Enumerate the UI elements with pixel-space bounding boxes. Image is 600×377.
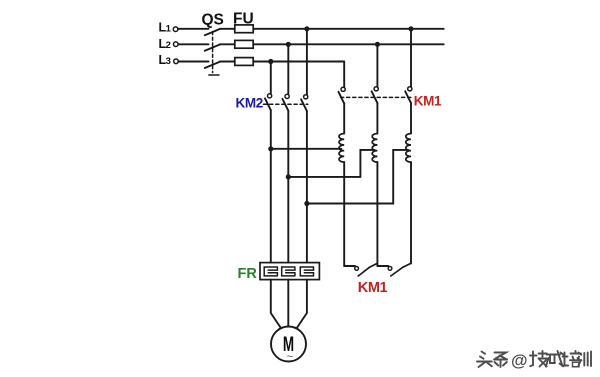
FR heater element 2 xyxy=(282,267,295,276)
QS blade pole 3 xyxy=(205,62,220,68)
wire: drop L1 to KM1 contact 3 xyxy=(410,29,412,87)
char xun xyxy=(578,352,592,367)
QS mechanical link (dashed) xyxy=(212,32,214,73)
wire: coil 1 bottom down xyxy=(343,162,345,266)
svg-text:KM1: KM1 xyxy=(414,93,442,108)
wire: FR to motor phase 2 xyxy=(287,280,289,326)
svg-text:@: @ xyxy=(511,351,528,370)
terminal L1 xyxy=(159,21,178,35)
wire L1 bus xyxy=(178,28,444,30)
wire: drop L1 to KM2 contact 3 xyxy=(306,29,308,95)
wire L2 bus xyxy=(178,43,443,45)
wire: coil 3 bottom down xyxy=(410,162,412,263)
switch QS xyxy=(202,12,224,76)
contactor KM1 (bottom) star contact A xyxy=(344,263,377,276)
contactor KM1 contact 2 xyxy=(372,87,379,103)
wire: L3 corner down to KM1 contact 1 xyxy=(343,62,345,88)
wire: coil 3 tap to KM2 line 3 xyxy=(307,150,408,204)
svg-text:KM2: KM2 xyxy=(236,96,263,111)
inductor coil 3 (starting reactor phase 3) xyxy=(406,134,411,163)
wire: FR to motor phase 1 xyxy=(271,280,282,330)
svg-text:QS: QS xyxy=(202,12,224,29)
wire: FR to motor phase 3 xyxy=(295,280,307,330)
node: L2 tap to KM2 pole 2 xyxy=(286,42,291,47)
thermal overload relay FR box xyxy=(260,263,319,280)
wire: KM1 contact 1 to coil 1 xyxy=(343,104,345,134)
FR heater element 3 xyxy=(300,267,313,276)
fuse FU pole 1 xyxy=(235,25,253,33)
char ji xyxy=(530,351,547,367)
fuse group FU xyxy=(233,11,254,66)
node: tap of coil 1 xyxy=(268,146,273,151)
contactor KM1 contact 3 xyxy=(405,87,412,103)
wire: KM1 contact 3 to coil 3 xyxy=(410,103,412,133)
fuse FU pole 3 xyxy=(235,58,253,66)
wire: coil 2 tap to KM2 line 2 xyxy=(288,150,374,177)
fuse FU pole 2 xyxy=(235,40,253,48)
node: tap of coil 3 xyxy=(304,201,309,206)
svg-text:1: 1 xyxy=(166,24,172,35)
QS blade pole 1 xyxy=(205,29,220,35)
KM2 mechanical link (dashed) xyxy=(264,103,308,105)
wire: KM2 contact 3 down to FR xyxy=(306,111,308,263)
wire: KM2 contact 1 down to FR xyxy=(270,110,272,262)
contactor KM2 contact 1 xyxy=(265,94,272,110)
KM1 mechanical link (dashed) xyxy=(341,96,414,98)
svg-text:FR: FR xyxy=(238,266,258,282)
inductor coil 2 (starting reactor phase 2) xyxy=(372,134,377,163)
svg-text:2: 2 xyxy=(166,40,171,51)
inductor coil 1 (starting reactor phase 1) xyxy=(339,134,344,163)
svg-text:3: 3 xyxy=(166,56,171,67)
motor M xyxy=(271,327,306,364)
char tou xyxy=(477,352,492,368)
QS link end bar xyxy=(209,74,219,76)
wire: drop L3 to KM2 contact 1 xyxy=(270,62,272,94)
watermark 头条 @技成培训 xyxy=(477,351,591,370)
node: L3 tap to KM2 pole 1 xyxy=(268,59,273,64)
terminal L2 xyxy=(159,37,179,51)
node: tap of coil 2 xyxy=(286,174,291,179)
contactor KM2 contact 2 xyxy=(283,94,290,110)
wire L3 bus xyxy=(179,61,345,63)
node: L2 tap to KM1 pole 2 xyxy=(375,42,380,47)
terminal L3 xyxy=(159,53,179,67)
wire: coil 2 bottom down xyxy=(376,162,378,266)
wire: KM1 contact 2 to coil 2 xyxy=(376,103,378,133)
wire: KM2 contact 2 down to FR xyxy=(287,111,289,263)
wire: drop L2 to KM1 contact 2 xyxy=(376,44,378,86)
contactor KM1 contact 1 xyxy=(339,87,346,103)
char pei xyxy=(562,351,582,367)
contactor KM1 (bottom) star contact B xyxy=(377,263,411,276)
QS blade pole 2 xyxy=(205,45,220,51)
wire: coil 1 tap to KM2 line 1 xyxy=(271,148,342,150)
node: L1 tap to KM2 pole 3 xyxy=(304,26,309,31)
contactor KM2 contact 3 xyxy=(301,95,308,111)
FR heater element 1 xyxy=(264,267,277,276)
svg-text:KM1: KM1 xyxy=(358,280,388,296)
node: L1 tap to KM1 pole 3 xyxy=(408,26,413,31)
wire: drop L2 to KM2 contact 2 xyxy=(287,44,289,94)
svg-text:~: ~ xyxy=(287,351,293,363)
char tiao xyxy=(494,353,507,368)
char cheng xyxy=(546,351,564,367)
